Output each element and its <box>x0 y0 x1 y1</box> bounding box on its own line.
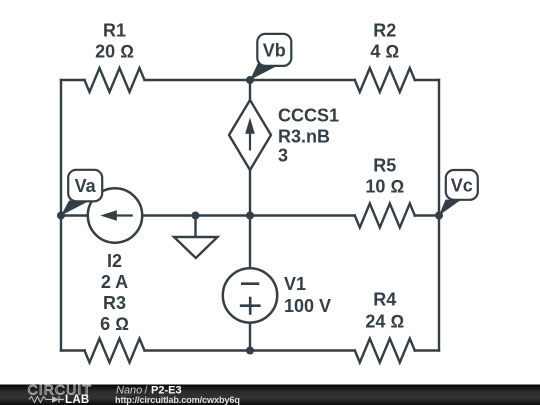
svg-text:R3.nB: R3.nB <box>278 127 330 147</box>
node dot center junction <box>246 212 254 220</box>
node dot Vc <box>435 212 443 220</box>
svg-text:Vb: Vb <box>263 41 286 61</box>
svg-text:10 Ω: 10 Ω <box>365 177 404 197</box>
label CCCS1 value <box>278 106 339 166</box>
voltage source V1 circle <box>223 268 277 322</box>
svg-text:R2: R2 <box>373 20 396 40</box>
wire left rail <box>60 80 62 351</box>
node Va label pointer <box>61 201 88 216</box>
V1 plus sign <box>240 297 261 315</box>
svg-text:R3: R3 <box>103 293 126 313</box>
footer bar <box>0 385 540 405</box>
resistor R5 <box>355 204 415 228</box>
svg-text:Vc: Vc <box>451 176 473 196</box>
wire top rail left segment <box>61 79 85 81</box>
svg-text:R4: R4 <box>373 290 396 310</box>
svg-text:Va: Va <box>75 176 97 196</box>
wire V1 bottom to bottom rail <box>249 323 251 351</box>
svg-text:V1: V1 <box>284 274 306 294</box>
CCCS1 arrow <box>245 118 255 151</box>
wire CCCS1 bottom to middle rail <box>249 170 251 216</box>
label R3 value <box>100 293 129 334</box>
node Va label box <box>68 170 102 202</box>
svg-text:R1: R1 <box>103 20 126 40</box>
node dot ground junction <box>192 212 200 220</box>
svg-text:20 Ω: 20 Ω <box>95 42 134 62</box>
wire bottom rail right segment <box>415 349 439 351</box>
svg-text:2 A: 2 A <box>101 272 128 292</box>
resistor R3 <box>85 339 145 363</box>
svg-text:http://circuitlab.com/cwxby6q: http://circuitlab.com/cwxby6q <box>115 395 240 405</box>
V1 minus sign <box>241 282 259 285</box>
wire ground stub <box>194 216 196 238</box>
wire middle rail right segment <box>415 214 439 216</box>
svg-text:3: 3 <box>278 146 288 166</box>
wire middle rail center segment <box>142 214 355 216</box>
resistor R2 <box>355 68 415 92</box>
node Vc label pointer <box>439 200 460 216</box>
node Vb label pointer <box>250 63 276 80</box>
resistor R1 <box>85 68 145 92</box>
svg-text:100 V: 100 V <box>284 296 331 316</box>
wire bottom rail middle segment <box>145 349 355 351</box>
node dot Vb <box>246 76 254 84</box>
footer CircuitLab logo wordmark <box>28 382 92 405</box>
resistor R4 <box>355 339 415 363</box>
label R5 value <box>365 156 404 197</box>
node dot Va <box>57 212 65 220</box>
svg-text:I2: I2 <box>107 251 122 271</box>
node Vc label box <box>446 170 478 200</box>
footer schematic title <box>116 385 182 397</box>
wire top rail right segment <box>415 79 439 81</box>
label R4 value <box>365 290 404 332</box>
op-amp CCCS1 diamond body <box>229 100 271 170</box>
current source I2 circle <box>88 188 142 242</box>
wire top rail middle segment <box>145 79 355 81</box>
node dot V1 bottom junction <box>246 347 254 355</box>
node Vb label box <box>257 34 291 66</box>
ground <box>174 237 218 258</box>
wire right rail <box>438 80 440 351</box>
wire middle rail left segment <box>61 214 88 216</box>
wire Vb node to CCCS1 top <box>249 80 251 100</box>
svg-text:4 Ω: 4 Ω <box>370 42 399 62</box>
label I2 value <box>101 251 128 292</box>
svg-text:LAB: LAB <box>65 394 90 405</box>
wire bottom rail left segment <box>61 349 85 351</box>
label R1 value <box>95 20 134 61</box>
svg-text:CCCS1: CCCS1 <box>278 106 339 126</box>
I2 arrow <box>100 210 133 221</box>
svg-text:R5: R5 <box>373 156 396 176</box>
label V1 value <box>284 274 331 316</box>
svg-text:6 Ω: 6 Ω <box>100 314 129 334</box>
label R2 value <box>370 20 399 61</box>
wire middle rail to V1 top <box>249 216 251 269</box>
svg-text:24 Ω: 24 Ω <box>365 312 404 332</box>
